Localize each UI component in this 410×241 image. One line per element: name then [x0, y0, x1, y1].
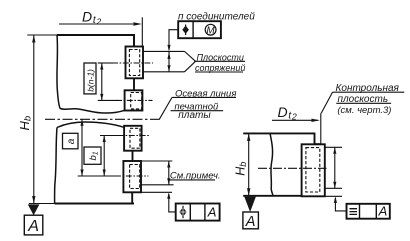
leader slant to axis line label — [159, 97, 172, 119]
arrow right dim bottom — [333, 182, 336, 189]
leader from bottom-right frame — [335, 198, 346, 211]
datum A box left — [24, 215, 43, 235]
контрольная leader slant — [321, 92, 332, 113]
panel bottom edge extension line — [29, 203, 55, 205]
См.примеч extension bottom — [141, 184, 174, 186]
stem block4 to panel bottom — [131, 192, 133, 203]
connector block 2 inner mating part (dashed) — [131, 93, 142, 109]
connector block 4 inner mating part (dashed) — [130, 165, 140, 189]
svg-text:Hb: Hb — [233, 162, 248, 176]
D_t2 extension line from block1 right edge — [141, 17, 143, 46]
M in circle symbol — [205, 24, 216, 35]
underline Осевая линия — [172, 96, 236, 98]
connector block 1 body — [126, 47, 144, 79]
position symbol diamond top frame — [182, 26, 189, 34]
См.примеч extension top (block4 top) — [141, 160, 172, 162]
right dim extension top — [325, 146, 342, 148]
dimension H_b right: line — [248, 133, 250, 195]
dimension label box a — [63, 133, 79, 149]
svg-text:п соединителей: п соединителей — [178, 11, 255, 22]
connector block 3 body — [124, 126, 142, 151]
position symbol diamond bottom-left frame — [179, 207, 186, 217]
arrow См.примеч top — [167, 161, 170, 168]
svg-text:а: а — [66, 138, 77, 144]
connector block 4 body — [123, 161, 141, 192]
arrow up at plane A — [167, 52, 170, 59]
arrow См.примеч bottom — [167, 178, 170, 185]
datum A box right — [243, 212, 259, 229]
mating plane line B from block1 — [143, 71, 185, 73]
position symbol vertical line in top frame — [185, 25, 187, 36]
double arrow segment between planes A and B — [168, 51, 170, 71]
right dim extension bottom — [325, 187, 342, 189]
svg-text:платы: платы — [178, 110, 211, 121]
arrow frame leader left — [167, 192, 170, 199]
svg-text:A: A — [378, 203, 388, 218]
right panel wavy break line — [270, 133, 273, 195]
dimension b(n-1): line — [101, 63, 103, 100]
panel lower piece top wavy break edge — [57, 122, 124, 128]
arrow H_b right top — [247, 133, 250, 141]
arrow b(n-1) top — [100, 63, 103, 70]
arrow leader onto plane A — [167, 45, 170, 52]
axis line of printed board (dash-dot) — [45, 118, 159, 120]
mating plane line A from block1 — [143, 50, 185, 52]
panel left wavy edge lower piece — [55, 128, 57, 204]
block4 bottom extension — [141, 191, 172, 193]
bottom-right feature control frame — [347, 204, 390, 219]
bottom-left frame dividers — [190, 204, 205, 221]
svg-text:M: M — [206, 25, 215, 36]
white cross in bottom-left diamond — [180, 208, 186, 216]
svg-text:Контрольная: Контрольная — [336, 83, 400, 94]
dimension b1: line — [103, 136, 105, 177]
underline печатной — [171, 110, 224, 112]
leader fork slant upper — [185, 51, 196, 61]
arrow right dim top — [333, 147, 336, 154]
leader from top frame down to plane A — [169, 30, 178, 50]
arrow a bottom — [80, 170, 83, 177]
svg-text:Осевая линия: Осевая линия — [175, 88, 236, 99]
svg-text:Плоскости: Плоскости — [197, 52, 244, 62]
underline сопряжений — [195, 71, 243, 73]
dimension D_t2 left: line — [59, 23, 140, 25]
svg-text:A: A — [245, 214, 256, 230]
b(n-1) extension lines — [98, 62, 113, 64]
arrow b(n-1) bottom — [100, 94, 103, 101]
panel left wavy edge upper piece — [57, 35, 60, 109]
svg-text:(см. черт.3): (см. черт.3) — [337, 105, 391, 116]
block4 centerline — [115, 175, 149, 177]
stem block3 to block4 — [132, 151, 134, 161]
panel upper piece bottom wavy break edge — [60, 109, 125, 114]
svg-text:A: A — [27, 218, 39, 235]
connector block 1 inner mating part (dashed) — [129, 50, 139, 76]
connector block 2 body — [125, 90, 143, 110]
panel top edge extension line — [27, 34, 57, 36]
arrow H_b bottom — [32, 196, 35, 204]
dimension a: line — [81, 119, 83, 176]
panel top edge (left view) — [57, 35, 134, 47]
arrow H_b top — [32, 35, 35, 43]
top frame divider — [192, 21, 194, 38]
position symbol vertical line in bottom-left frame — [182, 206, 184, 218]
bottom-right frame dividers — [360, 204, 377, 219]
datum triangle right — [244, 197, 256, 212]
right panel bottom edge — [243, 195, 301, 197]
leader from bottom-left frame — [169, 194, 176, 212]
dimension label box b1 — [84, 147, 101, 164]
bottom-left feature control frame — [176, 204, 220, 221]
block2 centerline — [116, 99, 153, 101]
b1 top extension — [100, 135, 124, 137]
svg-text:плоскость: плоскость — [338, 94, 389, 105]
arrow H_b right bottom — [247, 188, 250, 196]
stem block1 to block2 — [133, 78, 135, 90]
dimension D_t2 right: line — [272, 119, 318, 121]
underline Плоскости — [194, 60, 245, 62]
arrow frame leader right — [334, 196, 337, 203]
svg-text:b(n-1): b(n-1) — [86, 69, 96, 92]
контрольная плоскость vertical line — [320, 113, 322, 144]
datum triangle left — [28, 204, 40, 215]
arrow b1 bottom — [103, 170, 106, 177]
leader fork slant lower — [185, 61, 196, 72]
svg-text:Dt2: Dt2 — [278, 104, 298, 122]
right dimension line — [334, 147, 336, 188]
svg-text:сопряжений: сопряжений — [195, 63, 245, 73]
arrow D_t2 right (right view) — [312, 119, 320, 122]
См.примеч dimension line — [168, 161, 170, 185]
arrow b1 top — [103, 136, 106, 143]
arrow a top — [80, 119, 83, 126]
right view centerline — [258, 167, 327, 169]
block3 centerline — [118, 135, 150, 137]
dimension label box b(n-1) — [84, 63, 96, 94]
dimension H_b left: line — [33, 35, 35, 204]
connector block 3 inner mating part (dashed) — [130, 128, 140, 148]
a/b1 bottom extension at block4 centerline — [78, 175, 120, 177]
block1 centerline — [112, 62, 153, 64]
right connector inner mating part (dashed) — [306, 148, 320, 192]
svg-text:Dt2: Dt2 — [82, 9, 102, 27]
underline Контрольная — [333, 91, 405, 93]
right connector block body — [302, 144, 325, 196]
stem block1 to panel — [133, 35, 135, 47]
panel bottom edge — [55, 203, 134, 205]
svg-text:Hb: Hb — [17, 116, 34, 131]
arrow D_t2 right (left view) — [134, 22, 142, 25]
arrow down at plane B — [167, 65, 170, 72]
underline См.примеч — [169, 179, 215, 181]
top feature control frame — [178, 21, 221, 38]
right panel top edge with step — [243, 133, 321, 144]
right block bottom extension — [325, 195, 342, 197]
svg-text:См.примеч.: См.примеч. — [170, 171, 221, 182]
svg-text:A: A — [207, 204, 217, 219]
underline плоскость — [336, 102, 391, 104]
symmetry symbol bars in bottom-right frame — [350, 209, 358, 215]
